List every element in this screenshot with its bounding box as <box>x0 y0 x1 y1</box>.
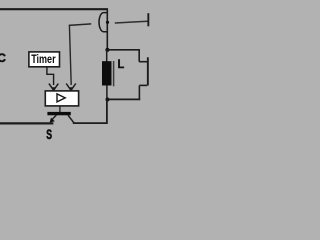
amp triangle inside driver <box>57 94 65 102</box>
wire to bell bottom lead <box>139 84 147 86</box>
wire timer output jog <box>47 67 54 85</box>
inductor L winding (solid bar) <box>102 61 112 85</box>
wire J2 to right <box>108 98 141 100</box>
wire top mains bus <box>0 8 108 10</box>
socket pin dot <box>106 21 109 24</box>
wire mains to left corner <box>69 24 91 26</box>
junction J1 <box>105 48 109 52</box>
wire inductor bottom to J2 <box>106 85 108 99</box>
wire down jog at 139 <box>138 50 140 62</box>
arrowhead into driver (left) <box>49 84 58 91</box>
gate lead from driver to triac <box>59 106 61 112</box>
wire J1 down to inductor <box>106 50 108 62</box>
wire J2 down to bottom bus <box>73 100 107 124</box>
wire J1 to right corner <box>107 49 140 51</box>
junction J2 <box>106 98 110 102</box>
wire up jog at 139.5 <box>138 85 140 99</box>
svg-text:L: L <box>118 57 125 71</box>
wire plug lead to terminal <box>115 21 148 23</box>
inductor core line <box>113 61 115 86</box>
wire to bell top lead <box>139 61 147 63</box>
driver box U2 <box>45 91 78 106</box>
svg-text:S: S <box>46 126 52 142</box>
anode diagonal with arrow <box>52 115 56 120</box>
socket half-shell X1 <box>99 13 107 32</box>
timer box U1 <box>29 52 60 67</box>
wire vertical drop to driver arrow <box>69 25 71 85</box>
svg-text:C: C <box>0 51 6 65</box>
wire drop from top bus to socket <box>106 9 108 50</box>
arrowhead into driver (right) <box>66 84 76 91</box>
cathode diagonal <box>68 115 74 123</box>
terminal bar top-right <box>147 13 149 26</box>
wire bottom-left bus <box>0 122 53 124</box>
bell housing edge (cut off at right) <box>147 57 149 85</box>
triac S main bar <box>47 112 70 115</box>
svg-text:Timer: Timer <box>31 52 56 66</box>
